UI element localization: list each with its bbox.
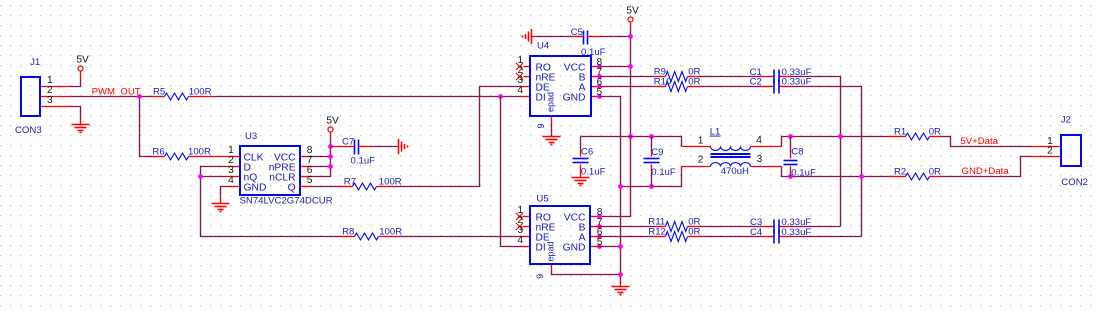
svg-text:CON3: CON3 [15,125,42,136]
svg-text:0R: 0R [688,227,700,238]
svg-text:0.1uF: 0.1uF [581,167,606,178]
svg-text:3: 3 [757,154,763,165]
svg-text:R7: R7 [344,177,356,188]
svg-text:4: 4 [517,85,523,96]
svg-text:C5: C5 [571,27,583,38]
svg-text:GND: GND [244,183,267,194]
svg-text:100R: 100R [379,226,402,237]
svg-text:2: 2 [1047,145,1053,156]
svg-text:1: 1 [698,135,704,146]
svg-text:PWM_OUT: PWM_OUT [92,86,141,97]
svg-text:0R: 0R [929,167,941,178]
svg-text:5: 5 [307,175,313,186]
svg-text:5V+Data: 5V+Data [960,136,998,147]
svg-text:epad: epad [546,92,556,112]
svg-text:C6: C6 [581,146,593,157]
svg-text:R2: R2 [894,167,906,178]
svg-text:R12: R12 [648,227,666,238]
svg-text:5V: 5V [326,115,339,126]
svg-text:0.1uF: 0.1uF [581,47,606,58]
svg-text:U4: U4 [537,41,550,52]
svg-text:U5: U5 [536,193,548,204]
svg-text:SN74LVC2G74DCUR: SN74LVC2G74DCUR [240,196,333,207]
svg-text:GND+Data: GND+Data [962,166,1010,177]
svg-text:Q: Q [288,183,296,194]
svg-text:4: 4 [756,135,762,146]
svg-text:C8: C8 [791,147,803,158]
svg-text:5V: 5V [76,54,89,65]
svg-text:C9: C9 [651,147,663,158]
svg-text:GND: GND [563,93,586,104]
svg-text:0R: 0R [688,76,700,87]
svg-text:0.33uF: 0.33uF [782,77,812,88]
svg-text:R10: R10 [654,76,672,87]
svg-text:C7: C7 [342,136,354,147]
svg-text:0.1uF: 0.1uF [791,168,816,179]
svg-text:5V: 5V [626,5,639,16]
svg-text:2: 2 [698,154,704,165]
svg-text:R1: R1 [894,127,906,138]
svg-text:100R: 100R [188,147,211,158]
svg-text:J2: J2 [1061,114,1071,125]
svg-text:GND: GND [563,243,586,254]
svg-text:470uH: 470uH [721,166,749,177]
svg-text:5: 5 [597,87,603,98]
svg-text:L1: L1 [710,127,721,138]
svg-text:CON2: CON2 [1061,177,1088,188]
svg-text:100R: 100R [189,86,212,97]
svg-text:C2: C2 [750,77,762,88]
svg-text:3: 3 [47,95,53,106]
svg-text:4: 4 [228,175,234,186]
svg-text:DI: DI [536,243,546,254]
svg-text:R5: R5 [153,86,165,97]
svg-text:9: 9 [535,274,545,279]
svg-text:R6: R6 [152,147,164,158]
svg-text:R8: R8 [342,226,354,237]
svg-text:9: 9 [536,123,546,128]
svg-text:0R: 0R [929,127,941,138]
svg-text:C4: C4 [750,227,763,238]
svg-text:J1: J1 [30,57,40,68]
svg-text:0.1uF: 0.1uF [651,167,676,178]
svg-text:epad: epad [546,241,556,261]
svg-text:5: 5 [597,237,603,248]
svg-text:100R: 100R [379,177,402,188]
svg-text:0.1uF: 0.1uF [351,156,376,167]
svg-text:DI: DI [536,93,546,104]
svg-text:U3: U3 [245,131,257,142]
svg-text:4: 4 [517,235,523,246]
svg-text:0.33uF: 0.33uF [781,227,811,238]
